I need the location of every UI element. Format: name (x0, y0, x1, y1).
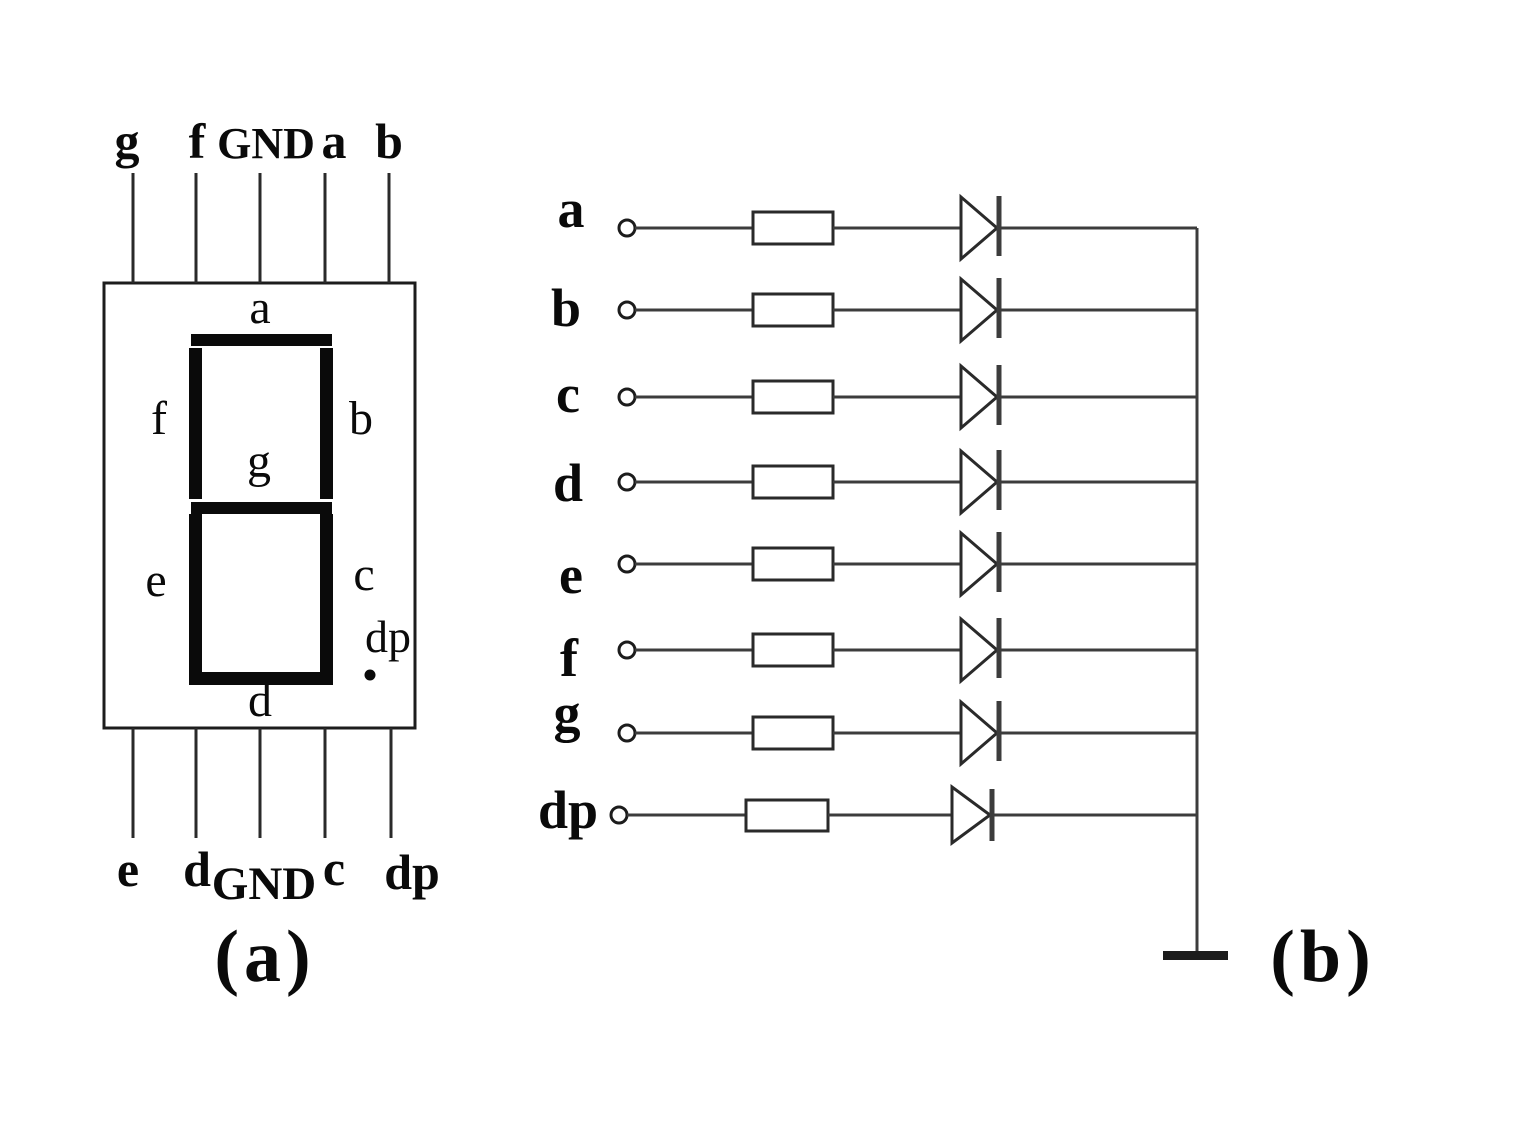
pin GND top lead (259, 173, 262, 283)
svg-text:a: a (322, 113, 347, 169)
row c terminal (619, 389, 635, 405)
LED D3 (961, 365, 999, 428)
resistor R2 (753, 294, 833, 326)
resistor R6 (753, 634, 833, 666)
row e wire: terminal to resistor (635, 563, 753, 566)
row dp wire: terminal to resistor (627, 814, 746, 817)
svg-text:a: a (249, 281, 270, 334)
row c wire: resistor to diode (833, 396, 961, 399)
segment dp dot (365, 670, 376, 681)
pin g top lead (132, 173, 135, 283)
row a wire: terminal to resistor (635, 227, 753, 230)
LED D8 (952, 787, 992, 843)
svg-text:b: b (349, 392, 373, 445)
svg-text:f: f (151, 392, 167, 445)
svg-text:GND: GND (212, 858, 316, 910)
svg-text:dp: dp (365, 611, 411, 662)
row c wire: terminal to resistor (635, 396, 753, 399)
LED D1 (961, 196, 999, 259)
segment e bar (189, 514, 202, 672)
pin GND bottom lead (259, 728, 262, 838)
resistor R4 (753, 466, 833, 498)
svg-text:e: e (559, 545, 583, 605)
pin b top lead (388, 173, 391, 283)
row e terminal (619, 556, 635, 572)
LED D4 (961, 450, 999, 513)
row dp wire: diode to rail (992, 814, 1197, 817)
row g terminal (619, 725, 635, 741)
svg-text:d: d (248, 674, 272, 727)
row f wire: terminal to resistor (635, 649, 753, 652)
row d wire: diode to rail (999, 481, 1197, 484)
resistor R7 (753, 717, 833, 749)
row b wire: resistor to diode (833, 309, 961, 312)
svg-text:d: d (553, 453, 583, 513)
pin c bottom lead (324, 728, 327, 838)
svg-text:(b): (b) (1270, 916, 1375, 998)
row a wire: resistor to diode (833, 227, 961, 230)
svg-text:f: f (189, 113, 207, 169)
LED D6 (961, 618, 999, 681)
svg-text:g: g (554, 683, 581, 743)
pin f top lead (195, 173, 198, 283)
common cathode rail (1196, 228, 1199, 951)
row dp terminal (611, 807, 627, 823)
svg-text:(a): (a) (214, 916, 315, 998)
row c wire: diode to rail (999, 396, 1197, 399)
row e wire: diode to rail (999, 563, 1197, 566)
svg-text:c: c (556, 364, 580, 424)
pin e bottom lead (132, 728, 135, 838)
svg-text:g: g (115, 113, 140, 169)
svg-text:c: c (323, 840, 345, 896)
segment f bar (189, 348, 202, 499)
pin a top lead (324, 173, 327, 283)
svg-text:dp: dp (384, 844, 440, 900)
row dp wire: resistor to diode (828, 814, 952, 817)
svg-text:b: b (551, 278, 581, 338)
row f terminal (619, 642, 635, 658)
row b terminal (619, 302, 635, 318)
svg-text:f: f (560, 628, 579, 688)
row g wire: terminal to resistor (635, 732, 753, 735)
resistor R1 (753, 212, 833, 244)
svg-text:e: e (117, 841, 139, 897)
segment c bar (320, 514, 333, 672)
row g wire: diode to rail (999, 732, 1197, 735)
svg-text:c: c (353, 548, 374, 601)
row d terminal (619, 474, 635, 490)
resistor R3 (753, 381, 833, 413)
svg-text:g: g (247, 435, 271, 488)
row a terminal (619, 220, 635, 236)
svg-text:GND: GND (217, 119, 315, 168)
LED D7 (961, 701, 999, 764)
row g wire: resistor to diode (833, 732, 961, 735)
segment a bar (191, 334, 332, 346)
segment b bar (320, 348, 333, 499)
svg-text:a: a (558, 179, 585, 239)
7-segment display package U1 (104, 283, 415, 728)
pin dp bottom lead (390, 728, 393, 838)
pin d bottom lead (195, 728, 198, 838)
LED D5 (961, 532, 999, 595)
resistor R5 (753, 548, 833, 580)
row f wire: resistor to diode (833, 649, 961, 652)
segment d bar (189, 672, 333, 685)
LED D2 (961, 278, 999, 341)
svg-text:dp: dp (538, 780, 598, 840)
svg-text:d: d (183, 841, 211, 897)
row d wire: resistor to diode (833, 481, 961, 484)
row b wire: terminal to resistor (635, 309, 753, 312)
ground (1163, 951, 1228, 960)
svg-text:b: b (375, 113, 403, 169)
row f wire: diode to rail (999, 649, 1197, 652)
segment g bar (191, 502, 332, 514)
row e wire: resistor to diode (833, 563, 961, 566)
resistor R8 (746, 800, 828, 831)
row a wire: diode to rail (999, 227, 1197, 230)
row d wire: terminal to resistor (635, 481, 753, 484)
row b wire: diode to rail (999, 309, 1197, 312)
svg-text:e: e (145, 554, 166, 607)
